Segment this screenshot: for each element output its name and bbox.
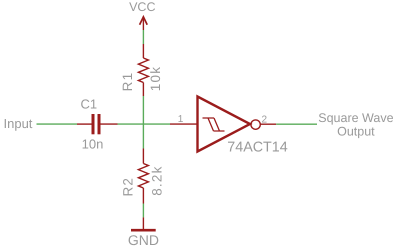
svg-text:Input: Input <box>4 116 33 131</box>
svg-text:VCC: VCC <box>129 0 155 14</box>
wire VCC to R1 <box>142 30 144 44</box>
svg-text:C1: C1 <box>80 97 97 112</box>
wire C1 to junction to U1 input <box>118 123 171 125</box>
svg-text:74ACT14: 74ACT14 <box>227 140 287 156</box>
resistor R1 <box>138 44 148 96</box>
wire U1 output <box>276 123 317 125</box>
wire R1 to junction to R2 <box>142 96 144 149</box>
wire R2 to ground <box>142 204 144 218</box>
inverter U1 74ACT14 (Schmitt trigger) <box>170 97 276 152</box>
svg-text:1: 1 <box>178 114 184 125</box>
svg-text:GND: GND <box>128 232 159 248</box>
wire Input to C1 <box>37 123 78 125</box>
capacitor C1 <box>77 114 118 134</box>
svg-text:R2: R2 <box>121 177 136 197</box>
svg-text:R1: R1 <box>120 72 135 92</box>
svg-text:10n: 10n <box>82 136 104 151</box>
svg-text:Output: Output <box>337 125 375 139</box>
resistor R2 <box>138 149 148 204</box>
ground <box>131 217 156 230</box>
power symbol VCC (arrow) <box>140 17 148 30</box>
svg-text:8.2k: 8.2k <box>149 165 164 195</box>
svg-text:Square Wave: Square Wave <box>318 111 393 125</box>
svg-text:2: 2 <box>262 115 268 126</box>
svg-text:10k: 10k <box>148 66 163 91</box>
